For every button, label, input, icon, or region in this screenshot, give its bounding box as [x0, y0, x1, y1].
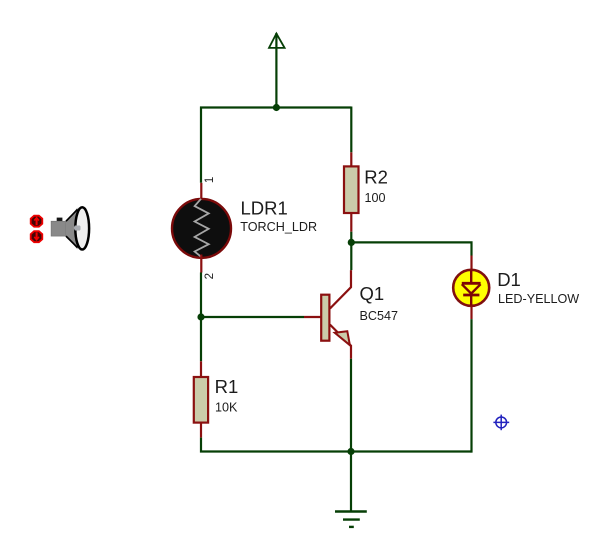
wire R2 drop from top rail: [350, 107, 352, 153]
svg-text:R2: R2: [364, 167, 388, 188]
node junction at power rail: [273, 104, 280, 111]
R2 top pin stub: [350, 152, 352, 167]
svg-text:LDR1: LDR1: [241, 197, 288, 218]
wire left vertical (top rail to LDR pin 1): [200, 107, 202, 183]
origin crosshair marker: [493, 415, 509, 431]
svg-text:LED-YELLOW: LED-YELLOW: [498, 292, 579, 306]
base pin stub of Q1: [304, 316, 321, 318]
wire left vertical (LDR pin 2 to R1): [200, 273, 202, 362]
power symbol VCC arrow: [269, 33, 285, 108]
svg-text:Q1: Q1: [360, 283, 385, 304]
wire base horizontal: [201, 316, 304, 318]
svg-text:2: 2: [204, 273, 216, 279]
wire R1 top (base tap down to R1) done above; R1 top pin stub: [200, 361, 202, 377]
wire R2 to collector node: [350, 232, 352, 270]
LDR1 body TORCH_LDR: [172, 199, 231, 258]
node junction collector/R2/LED: [348, 239, 355, 246]
pin 2 stub of LDR1: [200, 255, 202, 273]
LED D1: [453, 270, 489, 306]
wire to LED branch top: [351, 242, 471, 255]
svg-text:1: 1: [204, 177, 216, 183]
svg-text:BC547: BC547: [360, 309, 399, 323]
torch actuator button down: [31, 231, 43, 242]
LED top pin stub: [470, 256, 472, 271]
svg-text:10K: 10K: [215, 400, 238, 414]
node junction ground/emitter: [347, 448, 354, 455]
torch lamp icon: [51, 207, 89, 249]
resistor R2: [344, 166, 359, 213]
wire LED to bottom rail: [470, 319, 472, 453]
wire top rail: [200, 106, 351, 108]
svg-text:100: 100: [365, 191, 386, 205]
wire emitter to bottom rail: [350, 359, 352, 452]
pin 1 stub of LDR1: [200, 183, 202, 203]
R1 bottom pin stub: [200, 423, 202, 438]
svg-text:TORCH_LDR: TORCH_LDR: [240, 220, 317, 234]
R2 bottom pin stub: [350, 213, 352, 232]
transistor Q1 BC547: [321, 270, 351, 359]
LED bottom pin stub: [470, 306, 472, 320]
node junction at base tap: [197, 313, 204, 320]
ground symbol: [335, 512, 367, 527]
resistor R1: [194, 377, 208, 423]
torch actuator button up: [31, 216, 43, 227]
svg-text:R1: R1: [215, 376, 239, 397]
ground stem wire: [350, 452, 352, 512]
svg-text:D1: D1: [497, 269, 521, 290]
wire bottom rail: [201, 438, 472, 452]
